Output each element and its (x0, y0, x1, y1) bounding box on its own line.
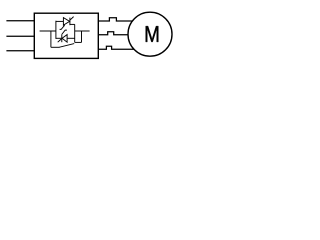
wire: inner main wire left segment (40, 30, 56, 32)
thyristor Q2 gate lead center (up-right with tick) (62, 30, 67, 34)
motor M1 circle (128, 12, 172, 56)
wire: bypass left drop (50, 31, 52, 47)
wire: bypass bottom left (51, 46, 59, 48)
thyristor Q1 triangle (upper, pointing right) (63, 18, 69, 26)
wire: lower branch exit (67, 37, 75, 39)
wire: right riser of thyristor loop (extends to bypass) (74, 24, 76, 42)
thyristor Q2 cathode bar (lower) (61, 35, 63, 43)
thyristor Q2 gate arm (down-left from bar) (58, 39, 62, 42)
wire: bypass bottom right (75, 41, 82, 43)
wire L3 (bottom input line) (6, 50, 34, 52)
thyristor Q1 gate arm (up-right from bar) (70, 17, 74, 21)
motor M1 letter M (146, 26, 159, 42)
thyristor Q1 cathode bar (69, 18, 71, 26)
wire: bypass right rise (81, 31, 83, 42)
thyristor Q2 triangle (lower, pointing left) (62, 35, 67, 43)
wire: inner main wire right segment (75, 30, 90, 32)
wire L1 (top input line) (6, 20, 34, 22)
wire: left riser of thyristor loop (55, 21, 57, 39)
soft starter enclosure box (34, 13, 98, 58)
thyristor Q1 cathode lead (bar bottom to riser) (70, 23, 75, 25)
wire R3 (bottom output) with overload hump (98, 46, 134, 49)
wire R1 (top output) with overload hump (98, 18, 132, 21)
wire: upper branch entry (56, 20, 64, 22)
wire R2 (middle output) with overload hump (98, 32, 127, 35)
wire L2 (middle input line) (6, 35, 34, 37)
wire: lower branch entry (56, 37, 62, 39)
switch blade (bypass contact, open) (59, 44, 74, 48)
thyristor Q1 gate lead center (down-left with tick) (60, 25, 65, 29)
